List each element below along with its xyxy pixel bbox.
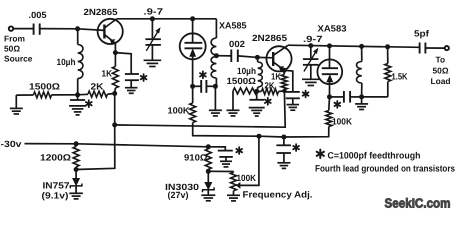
node 910 ohm bottom [206,169,211,174]
output terminal J2 (To 50 ohm Load) [445,46,449,50]
asterisk C8 [334,101,340,108]
note asterisk [317,150,324,158]
feedthrough capacitor C6 (*) below node E [249,91,265,116]
label To 50 ohm Load [431,55,451,87]
zener diode D1 1N757 [70,170,82,193]
svg-text:To: To [436,55,446,65]
svg-text:10µh: 10µh [57,57,76,67]
wire node A to Q1 base [78,29,105,31]
node B (bottom rail junction) [75,92,80,97]
node 910 ohm top [206,144,211,149]
input terminal J1 (From 50 ohm Source) [9,26,13,30]
watermark SeekIC.com [385,196,451,211]
capacitor C10 (*) on line B [276,137,291,168]
node rail1-U1 [190,16,195,21]
inductor L1 10uh [57,29,83,95]
tube U2 XA583 [317,46,342,97]
asterisk C10 [293,144,299,151]
resistor R13 910 ohm [184,149,211,170]
svg-text:SeekIC.com: SeekIC.com [385,196,451,211]
feedthrough capacitor C2 (*) below node B [69,95,86,115]
node 1200 ohm bottom [74,167,79,172]
resistor R2 1K (Q1 emitter) [102,53,119,94]
ground below VC2 [302,79,320,85]
svg-text:50Ω: 50Ω [433,65,449,75]
svg-text:50Ω: 50Ω [4,43,20,53]
svg-text:C=1000pf feedthrough: C=1000pf feedthrough [328,150,421,160]
svg-text:100K: 100K [237,173,257,183]
node E (stage2 bottom junction) [254,89,259,94]
capacitor C5 (*) tank coupling [193,80,216,93]
svg-text:-30v: -30v [1,139,22,149]
variable capacitor VC1 .9-7 [145,19,161,60]
transistor Q1 2N2865 [84,7,123,53]
svg-text:1.5K: 1.5K [392,71,408,81]
asterisk C5 [200,71,206,78]
node L4 bottom [359,94,364,99]
wire bias line A (emitter bias rail) [115,91,286,127]
svg-text:100K: 100K [332,116,352,126]
node A (Q1 base / L1 top) [75,26,80,31]
svg-text:.005: .005 [29,10,47,20]
wire -30v supply rail [25,144,209,147]
svg-text:(27v): (27v) [168,190,189,200]
svg-text:2N2865: 2N2865 [84,7,118,17]
resistor R5 2K [78,81,115,97]
wire bias line B [259,135,284,138]
svg-text:Load: Load [431,76,451,86]
inductor L4 output tank [357,44,365,97]
node 1200 ohm top [74,141,79,146]
capacitor C1 .005 [29,10,47,35]
svg-text:1500Ω: 1500Ω [29,81,60,91]
wire node D to Q2 base [257,56,273,58]
node emitter Q1 [113,50,118,55]
svg-text:XA583: XA583 [318,24,347,34]
ground G4 below L4 [355,97,368,110]
node tank bottom [213,84,218,89]
svg-text:10µh: 10µh [237,66,256,76]
potentiometer R14 100K Frequency Adj. [231,172,257,195]
wire C1 to node A [40,28,78,30]
variable capacitor VC2 .9-7 [303,46,319,79]
label XA585 [219,21,247,31]
svg-text:1200Ω: 1200Ω [40,152,71,162]
label XA583 [318,24,347,34]
ground below D2 [201,195,215,201]
capacitor C4 002 [216,39,257,62]
node C (1K/2K junction) [112,91,117,96]
node rail1-VC1 [150,16,155,21]
svg-text:100K: 100K [168,106,191,116]
resistor R11 100K (varactor bias right) [284,97,353,137]
asterisk C6 [265,98,271,105]
wire collector rail 1 [116,18,216,20]
wire collector rail 2 [288,45,420,47]
node U2 cathode [327,94,332,99]
node rail2-VC2 [308,43,313,48]
capacitor C7 Q2 emitter bypass (*) [286,92,300,104]
svg-text:XA585: XA585 [219,21,247,31]
ground below D1 [69,193,83,199]
svg-text:002: 002 [229,39,245,49]
wire input to C1 [13,28,33,30]
wiper arm of potentiometer [237,136,259,188]
ground below potentiometer [227,195,240,201]
node U1 cathode [190,84,195,89]
svg-text:1500Ω: 1500Ω [227,76,257,86]
svg-text:.9-7: .9-7 [303,34,323,44]
node G (wiper junction) [257,134,262,139]
ground below C7 [287,105,300,111]
svg-text:5pf: 5pf [414,28,430,38]
resistor R6 100K (varactor bias left) [168,86,260,136]
resistor R7 1500 ohm (stage2) [227,76,258,116]
svg-text:2N2865: 2N2865 [252,33,287,43]
zener diode D2 1N3030 [203,171,215,194]
capacitor C9 5pf [414,28,430,53]
resistor R1 1500 ohm [16,81,77,98]
label -30v [1,139,22,149]
svg-text:1K: 1K [102,68,113,78]
svg-text:From: From [4,33,25,43]
svg-text:(9.1v): (9.1v) [42,190,69,200]
node F (line A junction) [112,122,117,127]
wire 910 bottom to potentiometer [208,170,233,172]
note line 1 C=1000pf feedthrough [328,150,421,160]
svg-text:1K: 1K [271,71,281,81]
asterisk C7 [303,91,309,98]
label .9-7 (VC2) [303,34,323,44]
resistor R12 1200 ohm [40,144,79,170]
label .9-7 (VC1) [144,7,164,17]
capacitor C11 (*) at 910 ohm top [208,147,233,167]
ground G1 (left) [10,95,23,114]
svg-text:2K: 2K [265,80,275,90]
transistor Q2 2N2865 [252,33,292,72]
node D (Q2 base) [255,55,260,60]
inductor L3 10uh (stage2) [237,57,262,91]
svg-text:Source: Source [4,53,33,63]
node 2K/1K junction stage2 [282,89,286,93]
node H (line B cap junction) [281,135,286,140]
node tank tap [214,53,219,58]
ground below VC1 [144,60,162,66]
inductor L2 tank (tapped) [211,19,216,87]
label From 50 ohm Source [4,33,33,63]
node rail2-U2 [327,43,332,48]
note line 2 Fourth lead grounded on transistors [315,163,455,173]
svg-text:Fourth lead grounded on transi: Fourth lead grounded on transistors [315,163,455,173]
asterisk C3 [141,74,147,81]
ground below C3 [125,88,138,94]
capacitor C8 (*) U2 cathode [330,91,362,103]
resistor R10 1.5K [362,44,408,97]
svg-text:IN757: IN757 [43,181,70,191]
label 1N3030 (27v) [165,182,199,200]
label 1N757 (9.1v) [42,181,70,201]
svg-text:2K: 2K [91,81,105,91]
resistor R9 1K (Q2 emitter) [271,70,287,91]
wire emitter to bypass cap C3 [115,53,131,74]
asterisk C2 [86,100,92,107]
wire Q2 emitter to bypass cap C7 [284,70,293,91]
wire line A down to 1200 ohm [76,125,115,170]
wire C9 to output terminal [425,47,444,49]
asterisk C11 [236,147,242,154]
ground G2 below tank [209,86,222,116]
tube U1 XA585 [180,19,206,87]
label Frequency Adj. [243,190,313,200]
svg-text:.9-7: .9-7 [144,7,164,17]
svg-text:Frequency Adj.: Frequency Adj. [243,190,313,200]
resistor R8 2K (stage2) [257,80,285,94]
node emitter Q2 [282,68,287,73]
svg-text:910Ω: 910Ω [184,152,208,162]
capacitor C3 emitter bypass (*) [125,74,139,87]
